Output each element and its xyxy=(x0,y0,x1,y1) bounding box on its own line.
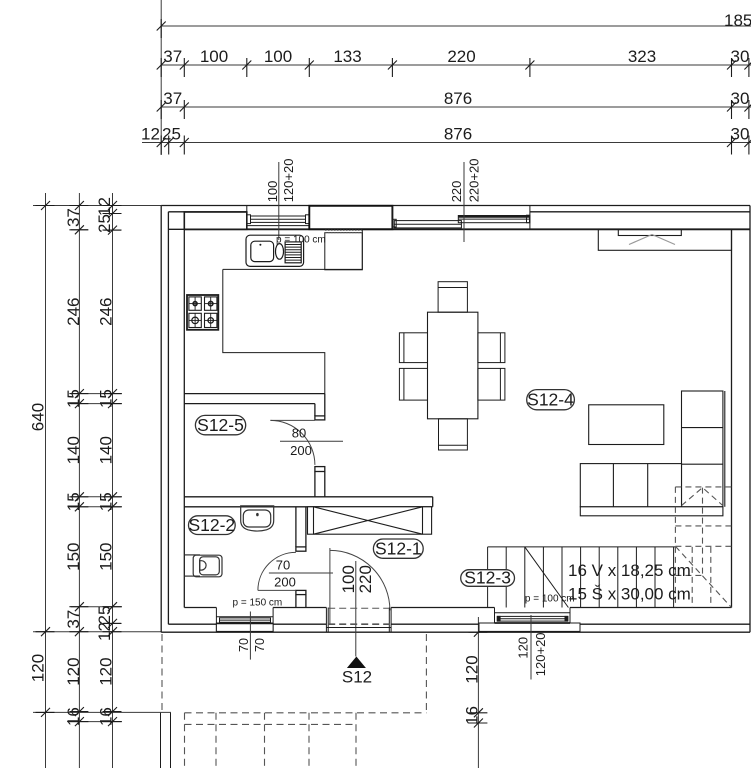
svg-text:12: 12 xyxy=(141,125,160,144)
wall bathroom right xyxy=(295,507,297,547)
toilet xyxy=(184,555,222,577)
svg-text:100: 100 xyxy=(200,47,228,66)
svg-text:37: 37 xyxy=(163,47,182,66)
door bathroom 70/200 xyxy=(258,552,296,590)
sofa vertical part xyxy=(682,391,723,507)
svg-text:120: 120 xyxy=(64,657,83,685)
door S12-5 80/200 xyxy=(270,420,315,465)
room label S12-5 xyxy=(195,415,245,435)
extension line left vertical xyxy=(160,0,162,155)
STAIRS xyxy=(488,547,676,608)
DINING SET xyxy=(428,312,478,419)
dim row 4 line xyxy=(142,142,751,144)
dim col 1 line (640) xyxy=(45,193,47,768)
window leader 100/120+20 xyxy=(278,162,280,240)
door jamb bath bottom xyxy=(296,590,306,594)
ticks col3 xyxy=(103,201,122,210)
room label S12-4 xyxy=(527,390,575,410)
left dimension chains xyxy=(33,193,171,768)
dining table xyxy=(428,312,478,419)
svg-text:16: 16 xyxy=(97,707,116,726)
extension line terrace xyxy=(33,711,171,713)
ticks row3 xyxy=(157,100,166,119)
svg-text:16: 16 xyxy=(462,706,481,725)
svg-text:p = 100 cm: p = 100 cm xyxy=(276,234,326,245)
sliding door 220 xyxy=(392,206,530,230)
kitchen zone boundary xyxy=(223,269,325,393)
svg-text:15: 15 xyxy=(64,492,83,511)
svg-text:S12-5: S12-5 xyxy=(197,415,244,435)
svg-text:15: 15 xyxy=(64,389,83,408)
svg-text:S12: S12 xyxy=(342,668,372,687)
dim 70/70 under bathroom window xyxy=(237,612,267,660)
window pier bold xyxy=(309,206,392,229)
svg-text:S12-2: S12-2 xyxy=(188,515,235,535)
svg-text:120: 120 xyxy=(516,637,531,659)
ticks col1 xyxy=(36,201,55,210)
svg-text:150: 150 xyxy=(97,543,116,571)
sofa horizontal part xyxy=(580,464,681,507)
hall wardrobe xyxy=(308,507,432,534)
wall pier corner-window xyxy=(184,212,247,229)
stair break line xyxy=(525,547,569,608)
svg-text:120: 120 xyxy=(29,654,48,682)
left wall insulation line xyxy=(167,212,169,624)
bathroom window 70 xyxy=(216,608,273,633)
svg-text:S12-4: S12-4 xyxy=(527,390,574,410)
chair bottom xyxy=(439,419,468,450)
svg-text:200: 200 xyxy=(290,443,312,458)
svg-text:16 V x 18,25 cm: 16 V x 18,25 cm xyxy=(568,561,691,580)
svg-text:120: 120 xyxy=(462,655,481,683)
counter edge xyxy=(223,230,362,270)
bottom wall inner face xyxy=(184,607,216,609)
svg-text:S12-3: S12-3 xyxy=(464,568,511,588)
window leader 220/220+20 xyxy=(463,162,465,242)
sofa xyxy=(580,391,725,516)
svg-text:120+20: 120+20 xyxy=(533,632,548,676)
room label S12-2 xyxy=(188,515,235,535)
chair top xyxy=(438,282,467,313)
right wall inner face xyxy=(731,230,733,608)
svg-text:220+20: 220+20 xyxy=(466,159,481,203)
dim row 1 line (1850) xyxy=(161,25,751,27)
stair text xyxy=(568,561,691,604)
chair left lower xyxy=(399,368,427,400)
svg-text:37: 37 xyxy=(64,610,83,629)
dim col 2 line xyxy=(78,193,80,768)
extension line top xyxy=(33,205,161,207)
bottom wall split line xyxy=(168,623,216,625)
terrace dashed outline xyxy=(162,634,426,768)
entrance door 100/220 xyxy=(330,548,390,624)
svg-text:25: 25 xyxy=(95,606,114,625)
dim row 2 line xyxy=(161,64,751,66)
chair right lower xyxy=(478,368,505,400)
coffee table xyxy=(589,405,664,445)
svg-text:70: 70 xyxy=(276,558,290,573)
svg-text:37: 37 xyxy=(64,208,83,227)
wall hall top xyxy=(184,496,432,498)
kitchen sink unit xyxy=(246,235,304,266)
bottom wall outer face xyxy=(161,631,750,633)
svg-text:100: 100 xyxy=(265,181,280,203)
door jamb S12-5 top xyxy=(315,416,325,420)
svg-text:37: 37 xyxy=(163,89,182,108)
svg-text:S12-1: S12-1 xyxy=(375,539,422,559)
svg-text:640: 640 xyxy=(29,403,48,431)
svg-text:140: 140 xyxy=(97,436,116,464)
svg-text:p = 150 cm: p = 150 cm xyxy=(233,598,283,609)
wall S12-5 top xyxy=(184,393,324,395)
top-right wardrobe xyxy=(598,230,731,251)
ticks row4 xyxy=(157,136,166,155)
svg-text:150: 150 xyxy=(64,543,83,571)
svg-text:220: 220 xyxy=(447,47,475,66)
door jamb S12-5 bottom xyxy=(315,467,325,472)
svg-text:70: 70 xyxy=(237,638,251,652)
svg-text:100: 100 xyxy=(264,47,292,66)
svg-text:120+20: 120+20 xyxy=(281,159,296,203)
entry window 120 xyxy=(479,608,580,633)
stair upper flight dashed xyxy=(675,487,731,607)
svg-text:246: 246 xyxy=(64,298,83,326)
room label S12-1 xyxy=(373,539,423,559)
svg-text:15 Š x 30,00 cm: 15 Š x 30,00 cm xyxy=(568,585,691,604)
svg-text:25: 25 xyxy=(162,125,181,144)
svg-text:15: 15 xyxy=(97,492,116,511)
svg-text:120: 120 xyxy=(97,657,116,685)
chair left upper xyxy=(399,333,427,363)
entrance marker S12 xyxy=(347,657,366,669)
door jamb bath top xyxy=(296,547,306,551)
svg-text:200: 200 xyxy=(274,575,296,590)
dim row 3 line xyxy=(161,106,751,108)
svg-text:30: 30 xyxy=(731,89,750,108)
svg-text:876: 876 xyxy=(444,89,472,108)
svg-text:16: 16 xyxy=(64,707,83,726)
dim 120/120+20 under entry window xyxy=(516,615,549,680)
right wall outer face xyxy=(749,206,751,633)
ticks row2 xyxy=(157,58,166,77)
WALLS xyxy=(161,206,750,633)
top wall insulation line xyxy=(168,211,246,213)
tick row1 xyxy=(157,19,166,38)
chair right upper xyxy=(478,333,505,363)
dim col 3 line xyxy=(112,193,114,768)
svg-text:323: 323 xyxy=(628,47,656,66)
left wall outer face xyxy=(160,206,162,633)
niche hatch strip xyxy=(325,230,362,232)
svg-text:133: 133 xyxy=(333,47,361,66)
entrance threshold xyxy=(326,608,391,633)
svg-text:12: 12 xyxy=(95,622,114,641)
top dimension chain xyxy=(142,0,751,155)
svg-text:15: 15 xyxy=(97,389,116,408)
terrace solid lines xyxy=(161,713,171,768)
window 1 kitchen 100 xyxy=(247,206,309,230)
svg-text:140: 140 xyxy=(64,436,83,464)
extension lines interior walls xyxy=(71,393,122,395)
svg-text:246: 246 xyxy=(97,298,116,326)
svg-text:30: 30 xyxy=(731,125,750,144)
outer wall top face xyxy=(161,205,750,207)
stove xyxy=(187,295,218,330)
ticks col2 xyxy=(69,201,88,210)
svg-text:1850: 1850 xyxy=(724,11,751,30)
INTERIOR WALLS xyxy=(184,394,432,608)
svg-text:30: 30 xyxy=(731,47,750,66)
room label S12-3 xyxy=(461,568,515,588)
wall S12-5 right xyxy=(314,404,316,416)
right bottom dimension line xyxy=(477,617,479,768)
left wall inner face xyxy=(183,212,185,608)
sofa back band xyxy=(580,507,723,516)
svg-text:80: 80 xyxy=(292,426,306,441)
svg-text:70: 70 xyxy=(253,638,267,652)
svg-text:220: 220 xyxy=(449,181,464,203)
extension line bottom wall xyxy=(33,631,161,633)
svg-text:12: 12 xyxy=(95,197,114,216)
svg-text:220: 220 xyxy=(356,565,375,593)
sink drainer hatch xyxy=(285,245,301,261)
washbasin xyxy=(241,506,274,531)
svg-text:25: 25 xyxy=(95,214,114,233)
svg-text:876: 876 xyxy=(444,125,472,144)
top wall inner face xyxy=(168,228,184,230)
